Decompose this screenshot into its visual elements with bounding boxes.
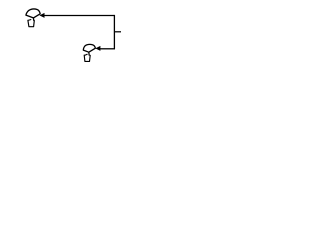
wire W1 (top horizontal) bbox=[44, 15, 114, 17]
lamp DS2 bbox=[83, 44, 95, 61]
lamp DS1 neck trunk bbox=[32, 18, 34, 21]
lamp DS2 bulb envelope bbox=[83, 44, 95, 52]
background bbox=[0, 0, 150, 72]
arrowhead into DS1 bbox=[39, 13, 44, 18]
lamp DS1 bbox=[26, 9, 40, 27]
lamp DS1 neck flare bbox=[28, 19, 31, 22]
arrowhead into DS2 bbox=[95, 46, 100, 51]
lamp DS1 bulb envelope bbox=[26, 9, 40, 18]
lamp DS2 base bbox=[84, 55, 90, 61]
stub junction tap bbox=[114, 31, 121, 33]
lamp DS2 neck flare bbox=[85, 53, 87, 56]
wire W2 (right vertical) bbox=[113, 15, 115, 49]
lamp DS1 base bbox=[28, 20, 34, 26]
lamp DS2 neck trunk bbox=[88, 52, 90, 55]
wire W3 (bottom horizontal) bbox=[100, 48, 115, 50]
